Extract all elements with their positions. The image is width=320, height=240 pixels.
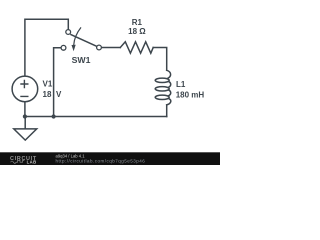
voltage source V1 [12, 76, 38, 102]
resistor R1 zigzag [120, 42, 153, 53]
terminal right [97, 45, 102, 50]
terminal top [66, 30, 71, 35]
junction node B [52, 114, 56, 118]
svg-text:V: V [56, 90, 62, 99]
terminal left [61, 45, 66, 50]
svg-text:LAB: LAB [27, 159, 37, 164]
svg-text:18: 18 [43, 90, 52, 99]
labels [43, 18, 205, 100]
wire bottom rail [25, 116, 167, 118]
svg-text:180 mH: 180 mH [176, 90, 205, 99]
logo waveform [11, 160, 25, 163]
switch SW1 [61, 27, 101, 51]
svg-text:18 Ω: 18 Ω [128, 27, 146, 36]
ground stub [24, 117, 26, 129]
wire top-left loop [25, 19, 68, 76]
ground [14, 129, 37, 140]
svg-text:V1: V1 [43, 80, 53, 89]
blade [70, 34, 96, 46]
wire V1 bottom to ground rail [24, 102, 26, 117]
wire R1 to L1 corner [153, 48, 167, 71]
svg-text:http://circuitlab.com/cqb7qg5e: http://circuitlab.com/cqb7qg5e53p46 [56, 159, 146, 164]
svg-text:SW1: SW1 [72, 55, 91, 65]
svg-text:L1: L1 [176, 80, 186, 89]
wire SW1 left branch [54, 48, 61, 117]
wire L1 bottom to rail [166, 105, 168, 117]
junction node A [23, 114, 27, 118]
inductor L1 coil [167, 70, 171, 78]
actuator arc [74, 27, 81, 45]
svg-text:R1: R1 [132, 18, 143, 27]
wire SW1 right terminal to R1 [102, 47, 121, 49]
footer bar [0, 152, 220, 165]
